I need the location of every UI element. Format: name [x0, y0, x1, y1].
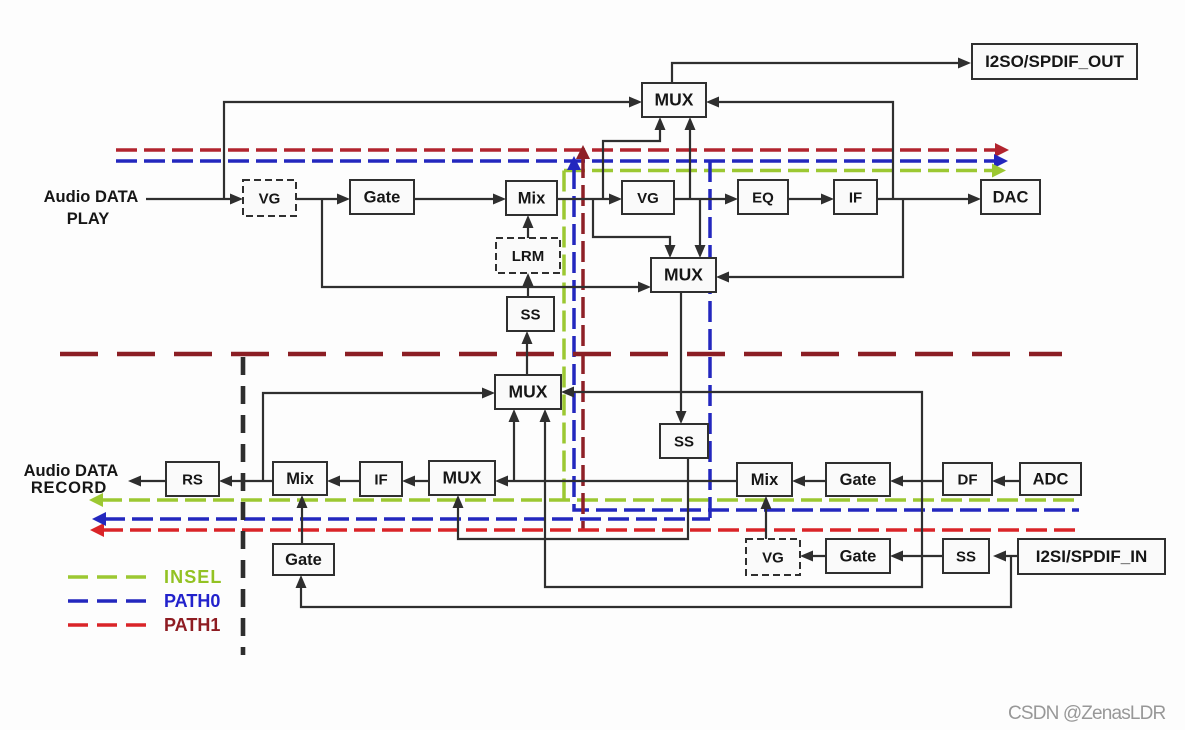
block I2SO/SPDIF_OUT	[972, 44, 1137, 79]
wire I2SI tap around to Gate3 bottom input	[296, 556, 1012, 607]
wire DF output tap to MUX4 right input	[561, 387, 922, 482]
node Audio DATA PLAY input label	[44, 188, 139, 228]
block Gate2	[826, 463, 890, 496]
signal path PATH0 lower horizontal dashed blue line	[92, 512, 710, 526]
signal path PATH1 upper horizontal dashed red line	[116, 143, 1009, 157]
svg-text:EQ: EQ	[752, 190, 774, 207]
wire SS3 to Gate4	[890, 551, 943, 562]
wire play tap to MUX1 left input	[224, 97, 642, 200]
block Gate3	[273, 544, 334, 575]
svg-text:SS: SS	[956, 549, 976, 566]
wire MUX1 output to I2SO/SPDIF_OUT	[672, 58, 971, 84]
block IF1	[834, 180, 877, 214]
block DAC	[981, 180, 1040, 214]
svg-text:DF: DF	[958, 472, 978, 489]
svg-text:MUX: MUX	[443, 468, 482, 488]
block DF	[943, 463, 992, 495]
svg-text:PATH1: PATH1	[164, 615, 220, 635]
wire Mix2 to MUX3	[495, 476, 737, 487]
wire record tap up to MUX4 bottom input	[509, 409, 520, 481]
signal path PATH0 upper horizontal dashed blue line	[116, 154, 1008, 168]
wire play input to VG1	[146, 194, 243, 205]
wire VG2 output tap up to MUX1 bottom input	[685, 117, 696, 199]
wire SS1 to LRM	[523, 273, 534, 297]
block IF2	[360, 462, 402, 496]
wire LRM to Mix1	[523, 215, 534, 238]
signal path PATH0 vertical dashed blue line with up arrow, elbow to lower right blue line	[567, 156, 1079, 510]
svg-text:SS: SS	[520, 307, 540, 324]
wire VG2 to EQ	[674, 194, 738, 205]
svg-text:RECORD: RECORD	[31, 479, 107, 497]
svg-text:MUX: MUX	[509, 382, 548, 402]
signal path PATH1 lower horizontal dashed red line	[90, 523, 1076, 537]
wire Mix1 output tap down to MUX2 top input	[593, 199, 676, 258]
wire ADC to DF	[992, 476, 1020, 487]
svg-text:RS: RS	[182, 472, 203, 489]
signal path INSEL upper horizontal dashed green line	[564, 164, 1006, 178]
block MUX1	[642, 83, 706, 117]
wire Gate2 to Mix2	[792, 476, 826, 487]
svg-text:MUX: MUX	[655, 90, 694, 110]
wire record tap up to MUX4 left input	[263, 388, 495, 482]
wire VG2 output tap down to MUX2 top input	[695, 199, 706, 258]
svg-text:Audio DATA: Audio DATA	[24, 462, 119, 480]
signal path INSEL vertical dashed green line	[562, 171, 566, 501]
signal path PATH0 long vertical dashed blue line through MUX	[708, 161, 712, 519]
block Gate1	[350, 180, 414, 214]
wire Gate4 to VG3	[800, 551, 826, 562]
block SS2	[660, 424, 708, 458]
wire IF record to Mix record	[327, 476, 360, 487]
svg-text:Mix: Mix	[751, 471, 779, 489]
wire IF to DAC	[877, 194, 981, 205]
wire DF output tap around to MUX4 bottom input	[540, 409, 923, 587]
signal path PATH1 vertical dashed dark red line with up arrow	[576, 145, 590, 530]
svg-text:I2SO/SPDIF_OUT: I2SO/SPDIF_OUT	[985, 52, 1124, 71]
svg-text:DAC: DAC	[993, 189, 1029, 207]
svg-text:Gate: Gate	[285, 551, 322, 569]
block I2SI/SPDIF_IN	[1018, 539, 1165, 574]
legend INSEL green dashed sample	[68, 567, 223, 587]
wire MUX3 to IF record	[402, 476, 429, 487]
block Gate4	[826, 539, 890, 573]
svg-text:VG: VG	[762, 550, 784, 567]
block MUX4	[495, 375, 561, 409]
wire Mix1 to VG2	[557, 194, 622, 205]
wire IF output up to MUX1 right input	[706, 97, 893, 200]
thick dark red dashed separator line	[60, 352, 1062, 357]
svg-text:Gate: Gate	[840, 548, 877, 566]
block LRM	[496, 238, 560, 273]
wire Gate3 to Mix record bottom input	[297, 495, 308, 544]
block EQ	[738, 180, 788, 214]
block Mix2	[737, 463, 792, 496]
svg-text:MUX: MUX	[664, 265, 703, 285]
block VG2	[622, 181, 674, 214]
wire VG1 output tap down to MUX2 left input	[322, 199, 651, 293]
block VG1	[243, 180, 296, 216]
legend PATH0 blue dashed sample	[68, 591, 220, 611]
block VG3	[746, 539, 800, 575]
svg-text:VG: VG	[259, 191, 281, 208]
wire RS output to record out	[128, 476, 166, 487]
svg-text:ADC: ADC	[1033, 471, 1069, 489]
wire Gate1 to Mix1	[414, 194, 506, 205]
block RS	[166, 462, 219, 496]
svg-text:SS: SS	[674, 434, 694, 451]
wire IF output down to MUX2 right input	[716, 199, 903, 283]
block SS1	[507, 297, 554, 331]
block MUX2	[651, 258, 716, 292]
block ADC	[1020, 463, 1081, 495]
svg-text:IF: IF	[849, 190, 862, 207]
svg-text:PLAY: PLAY	[67, 210, 110, 228]
block MUX3	[429, 461, 495, 495]
wire EQ to IF	[788, 194, 834, 205]
svg-text:IF: IF	[374, 472, 387, 489]
svg-text:Mix: Mix	[286, 470, 314, 488]
svg-text:PATH0: PATH0	[164, 591, 220, 611]
wire SS2 output around to MUX3 bottom input	[453, 458, 689, 539]
svg-text:LRM: LRM	[512, 248, 545, 265]
black dashed vertical separator line	[241, 357, 246, 655]
wire DF to Gate2	[890, 476, 943, 487]
node Audio DATA RECORD output label	[24, 462, 119, 497]
svg-text:Audio DATA: Audio DATA	[44, 188, 139, 206]
svg-text:Gate: Gate	[840, 471, 877, 489]
block Mix1	[506, 181, 557, 215]
wire Mix record to RS	[219, 476, 273, 487]
svg-text:INSEL: INSEL	[164, 567, 223, 587]
svg-text:CSDN @ZenasLDR: CSDN @ZenasLDR	[1008, 703, 1165, 724]
wire VG3 up to Mix2 bottom input	[761, 496, 772, 539]
svg-text:I2SI/SPDIF_IN: I2SI/SPDIF_IN	[1036, 547, 1147, 566]
wire MUX4 output up to SS1	[522, 331, 533, 375]
svg-text:Gate: Gate	[364, 189, 401, 207]
wire MUX2 output down to SS2	[676, 292, 687, 424]
legend PATH1 red dashed sample	[68, 615, 220, 635]
wire VG1 to Gate1	[296, 194, 350, 205]
block Mix3	[273, 462, 327, 495]
svg-text:VG: VG	[637, 190, 659, 207]
wire Mix1 output tap up to MUX1 bottom input	[603, 117, 666, 199]
svg-text:Mix: Mix	[518, 190, 546, 208]
signal path INSEL lower horizontal dashed green line	[89, 493, 1079, 507]
wire I2SI/SPDIF_IN to SS3	[993, 551, 1018, 562]
block SS3	[943, 539, 989, 573]
